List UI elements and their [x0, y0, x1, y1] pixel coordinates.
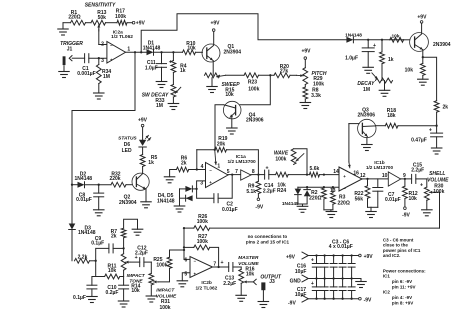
svg-text:−: − [110, 43, 113, 48]
svg-text:1N4148: 1N4148 [157, 198, 175, 204]
svg-text:2k: 2k [443, 104, 449, 110]
svg-text:and IC2.: and IC2. [383, 253, 401, 258]
svg-text:2.2µF: 2.2µF [263, 188, 276, 194]
svg-text:+: + [311, 258, 314, 264]
svg-text:+: + [169, 59, 172, 65]
svg-text:IMPACT: IMPACT [127, 273, 146, 279]
svg-text:2k: 2k [181, 161, 187, 167]
svg-text:5: 5 [184, 271, 187, 277]
svg-text:+9V: +9V [136, 21, 146, 27]
svg-text:1N4148: 1N4148 [282, 201, 299, 207]
svg-text:1k: 1k [388, 57, 394, 63]
svg-text:10: 10 [382, 173, 388, 179]
svg-text:−: − [343, 186, 346, 191]
svg-text:10k: 10k [391, 34, 399, 40]
svg-text:+: + [194, 271, 197, 276]
svg-text:10k: 10k [225, 92, 234, 98]
svg-text:−: − [209, 168, 212, 173]
svg-text:5: 5 [227, 169, 230, 175]
svg-text:0.01µF: 0.01µF [222, 207, 238, 213]
svg-text:100k: 100k [115, 14, 126, 20]
svg-text:SHELL: SHELL [429, 171, 445, 177]
svg-text:+: + [311, 281, 314, 287]
svg-text:18k: 18k [387, 113, 396, 119]
svg-text:1k: 1k [180, 68, 186, 74]
svg-text:+9V: +9V [301, 48, 311, 54]
svg-text:IC2b: IC2b [201, 280, 211, 286]
svg-text:56k: 56k [355, 196, 364, 202]
svg-text:50k: 50k [98, 15, 107, 21]
svg-text:10k: 10k [409, 196, 418, 202]
svg-text:J3: J3 [269, 279, 275, 285]
svg-text:2.2µF: 2.2µF [135, 251, 148, 257]
svg-text:1.0µF: 1.0µF [345, 55, 358, 61]
svg-text:10µF: 10µF [295, 269, 307, 275]
svg-text:7: 7 [235, 169, 238, 175]
svg-text:100k: 100k [159, 305, 170, 311]
svg-text:220Ω: 220Ω [68, 14, 80, 20]
svg-text:1N4148: 1N4148 [345, 32, 362, 38]
svg-text:10k: 10k [405, 68, 414, 74]
svg-text:+9V: +9V [286, 254, 296, 260]
svg-text:20k: 20k [217, 141, 226, 147]
svg-text:STATUS: STATUS [118, 136, 137, 142]
svg-text:+9V: +9V [364, 254, 374, 260]
svg-text:1N4148: 1N4148 [143, 45, 161, 51]
svg-text:2.2k: 2.2k [78, 255, 88, 261]
svg-text:0.1µF: 0.1µF [91, 241, 104, 247]
svg-text:+: + [220, 260, 223, 266]
svg-text:4: 4 [201, 164, 204, 170]
svg-text:pin 4: -9V: pin 4: -9V [392, 295, 412, 300]
svg-text:1M: 1M [363, 87, 370, 93]
svg-text:Power connections:: Power connections: [383, 268, 426, 273]
svg-text:-9V: -9V [288, 301, 296, 307]
svg-text:10k: 10k [131, 288, 140, 294]
svg-text:1.0µF: 1.0µF [145, 65, 158, 71]
svg-text:3: 3 [101, 58, 104, 64]
svg-text:100k: 100k [313, 81, 324, 87]
svg-text:1N4148: 1N4148 [78, 230, 96, 236]
svg-text:100k: 100k [275, 156, 286, 162]
svg-text:R24: R24 [277, 188, 286, 194]
svg-text:pin 8: +9V: pin 8: +9V [392, 300, 413, 305]
svg-text:6: 6 [185, 258, 188, 264]
svg-text:12: 12 [360, 173, 366, 179]
svg-text:1k: 1k [148, 160, 154, 166]
svg-text:100k: 100k [433, 189, 444, 195]
svg-text:2.2µF: 2.2µF [223, 281, 236, 287]
svg-text:1: 1 [217, 164, 220, 170]
svg-text:13: 13 [330, 188, 336, 194]
svg-text:J1: J1 [67, 46, 73, 52]
svg-text:1/2 LM13700: 1/2 LM13700 [227, 159, 256, 165]
svg-text:LED: LED [122, 148, 132, 154]
svg-text:pins 2 and 15 of IC1: pins 2 and 15 of IC1 [246, 239, 290, 244]
svg-text:1M: 1M [156, 103, 163, 109]
svg-text:IC1a: IC1a [236, 154, 246, 160]
svg-text:GND: GND [290, 279, 302, 285]
svg-text:27k: 27k [280, 69, 289, 75]
svg-text:+9V: +9V [210, 21, 220, 27]
svg-text:5.1k: 5.1k [246, 189, 256, 195]
svg-text:2N3904: 2N3904 [119, 200, 137, 206]
svg-text:+: + [209, 180, 212, 185]
svg-text:+: + [110, 57, 113, 62]
svg-text:14: 14 [333, 169, 339, 175]
svg-text:IMPACT: IMPACT [156, 288, 175, 294]
svg-text:+: + [373, 43, 376, 49]
svg-text:+: + [343, 174, 346, 179]
svg-text:-9V: -9V [364, 297, 372, 303]
svg-text:2N3904: 2N3904 [224, 49, 242, 55]
svg-text:10µF: 10µF [295, 292, 307, 298]
svg-text:2.2µF: 2.2µF [411, 168, 424, 174]
svg-text:R23: R23 [248, 80, 257, 86]
svg-text:1/2 TL062: 1/2 TL062 [195, 286, 217, 292]
svg-text:0.2µF: 0.2µF [106, 290, 119, 296]
svg-text:IC2: IC2 [383, 290, 391, 295]
svg-text:0.001µF: 0.001µF [77, 71, 95, 77]
svg-text:pin 6: -9V: pin 6: -9V [392, 279, 412, 284]
svg-text:220Ω: 220Ω [338, 200, 350, 206]
svg-text:IC1: IC1 [383, 274, 391, 279]
svg-text:+9V: +9V [138, 118, 148, 124]
svg-text:MASTER: MASTER [238, 255, 259, 261]
svg-text:100k: 100k [197, 239, 208, 245]
svg-text:2N3906: 2N3906 [358, 113, 376, 119]
svg-text:SENSITIVITY: SENSITIVITY [85, 3, 116, 9]
svg-text:+: + [420, 183, 423, 189]
svg-text:pin 11: +9V: pin 11: +9V [392, 284, 416, 289]
svg-text:-9V: -9V [255, 204, 263, 210]
svg-text:1/2 TL062: 1/2 TL062 [111, 34, 133, 40]
svg-text:100k: 100k [248, 86, 259, 92]
svg-text:1/2 LM13700: 1/2 LM13700 [366, 165, 394, 170]
svg-text:+9V: +9V [417, 14, 427, 20]
svg-text:1M: 1M [103, 74, 110, 80]
svg-text:2: 2 [101, 41, 104, 47]
svg-text:220k: 220k [109, 176, 120, 182]
svg-text:3.3k: 3.3k [311, 93, 321, 99]
svg-text:4 x 0.01µF: 4 x 0.01µF [329, 244, 353, 250]
svg-text:0.47µF: 0.47µF [411, 137, 427, 143]
svg-text:9: 9 [403, 173, 406, 179]
svg-text:5.6k: 5.6k [310, 166, 320, 172]
svg-text:-9V: -9V [402, 212, 410, 218]
svg-text:3: 3 [200, 181, 203, 187]
svg-text:16: 16 [353, 170, 359, 176]
svg-text:−: − [194, 258, 197, 263]
svg-text:2N3904: 2N3904 [433, 42, 451, 48]
svg-text:0.01µF: 0.01µF [76, 197, 92, 203]
svg-text:10k: 10k [108, 268, 117, 274]
svg-text:100k: 100k [197, 219, 208, 225]
svg-text:0.01µF: 0.01µF [385, 197, 401, 203]
svg-text:220Ω: 220Ω [309, 195, 321, 201]
svg-text:no connections to: no connections to [248, 234, 288, 239]
svg-text:100k: 100k [156, 262, 167, 268]
svg-text:2N3906: 2N3906 [246, 118, 264, 124]
svg-text:+: + [429, 127, 432, 133]
svg-text:10k: 10k [246, 272, 255, 278]
svg-text:1: 1 [127, 47, 130, 53]
svg-text:+: + [265, 166, 268, 172]
svg-text:2k: 2k [111, 234, 117, 240]
svg-text:10k: 10k [187, 46, 196, 52]
svg-text:0.1µF: 0.1µF [73, 295, 86, 301]
svg-text:1N4148: 1N4148 [75, 176, 93, 182]
